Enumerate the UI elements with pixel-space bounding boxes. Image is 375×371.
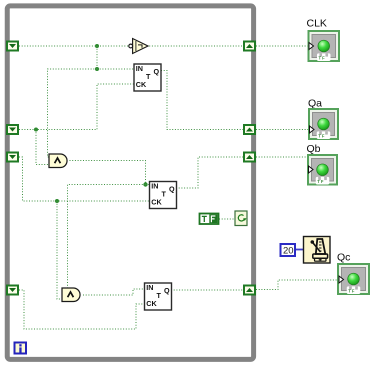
flip-flop FF2 [150, 181, 177, 208]
wire: L3 Qb to FF2 CK [19, 157, 150, 201]
wire: FF2 Q output to R3 [176, 157, 243, 188]
svg-text:Q: Q [164, 286, 170, 295]
wire: junction to FF1 IN [97, 68, 134, 70]
shift register terminal R1 [244, 42, 255, 51]
svg-text:Q: Q [169, 184, 175, 193]
indicator Qa [309, 109, 338, 139]
boolean constant TF (false) [200, 214, 219, 225]
node: junction on clock wire [95, 44, 99, 48]
node: junction on Qa wire [34, 128, 38, 132]
NOT gate [129, 39, 148, 54]
svg-text:T: T [146, 72, 151, 81]
shift register terminal R3 [244, 153, 255, 162]
indicator Qb [308, 155, 337, 185]
while loop border [7, 6, 253, 360]
flip-flop FF1 [134, 64, 161, 91]
svg-text:IN: IN [136, 64, 143, 73]
wire: AND2 output to FF3 IN [83, 289, 145, 295]
wire: Qa branch down to AND1 bottom input [36, 130, 50, 165]
svg-text:CK: CK [151, 198, 162, 207]
wire: FF2 IN junction branch to AND2 top input [68, 185, 146, 289]
wire: junction drop to FF1 IN level [96, 46, 98, 69]
wire: AND1 output to FF2 IN junction [70, 161, 146, 185]
wire: L2 Qa to FF1 CK [19, 84, 134, 130]
label Qa [308, 97, 322, 109]
svg-text:Qa: Qa [308, 97, 322, 109]
shift register terminal L1 [7, 42, 18, 51]
node: junction at FF2 IN [143, 182, 147, 186]
svg-text:Qb: Qb [307, 143, 321, 155]
svg-text:T F: T F [318, 133, 325, 138]
svg-text:IN: IN [151, 181, 158, 190]
svg-text:CLK: CLK [307, 17, 327, 29]
label Qb [307, 143, 321, 155]
wire: FF1 Q output to R2 [161, 71, 243, 130]
indicator CLK [309, 31, 340, 61]
wire: Qb branch down to AND2 bottom input [57, 201, 63, 299]
indicator Qc [338, 264, 369, 294]
shift register terminal R4 [244, 286, 255, 295]
svg-text:IN: IN [146, 283, 153, 292]
AND gate A1 [49, 154, 67, 168]
wire: 20 constant to wait function (blue) [296, 249, 304, 251]
wire: junction to FF2 IN [146, 184, 150, 186]
loop condition terminal (continue if true) [235, 211, 247, 226]
wire: FF3 Q output to R4 [171, 289, 243, 291]
wire: TF constant to loop condition terminal [219, 218, 235, 220]
svg-text:Qc: Qc [337, 251, 350, 263]
svg-text:CK: CK [136, 80, 147, 89]
shift register terminal L3 [7, 153, 18, 162]
svg-text:Q: Q [154, 67, 160, 76]
svg-text:T: T [157, 291, 162, 300]
wire: NOT output to right shift register R1 [147, 45, 244, 47]
svg-text:T F: T F [348, 288, 355, 293]
label Qc [337, 251, 350, 263]
shift register terminal L2 [7, 125, 18, 134]
svg-text:T F: T F [317, 179, 324, 184]
wire: L1 clock to NOT input [19, 45, 131, 47]
node: junction on Qb wire [55, 199, 59, 203]
wait until next ms multiple function [304, 237, 331, 264]
wire: R1 to CLK indicator [256, 45, 309, 47]
label CLK [307, 17, 327, 29]
shift register terminal L4 [7, 286, 18, 295]
wire: clock branch down to AND1 top input [48, 69, 98, 157]
svg-text:CK: CK [146, 299, 157, 308]
wire: L4 Qc to FF3 CK [19, 290, 145, 329]
numeric constant 20 [281, 244, 296, 257]
svg-text:T: T [162, 190, 167, 199]
AND gate A2 [62, 288, 80, 302]
svg-text:T F: T F [318, 55, 325, 60]
shift register terminal R2 [244, 125, 255, 134]
iteration terminal i [15, 343, 27, 354]
node: junction at FF1 IN branch [95, 67, 99, 71]
flip-flop FF3 [145, 283, 172, 310]
wire: R3 to Qb indicator [256, 156, 308, 158]
wire: R2 to Qa indicator [256, 129, 309, 131]
wire: R4 to Qc indicator [256, 280, 338, 290]
svg-text:20: 20 [283, 246, 294, 257]
